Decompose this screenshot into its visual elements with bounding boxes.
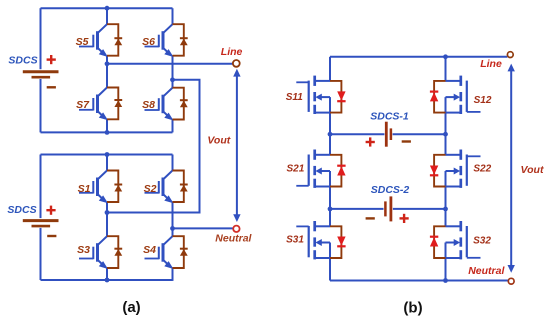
svg-text:S5: S5 [76,36,89,48]
svg-text:S4: S4 [143,244,156,256]
svg-text:S2: S2 [144,183,157,195]
svg-text:S3: S3 [77,244,90,256]
svg-text:(b): (b) [403,300,422,317]
svg-text:Line: Line [480,58,502,70]
svg-text:S11: S11 [286,92,303,103]
svg-text:S1: S1 [78,183,91,195]
svg-text:S22: S22 [473,164,491,175]
svg-text:Neutral: Neutral [468,265,505,277]
svg-text:SDCS-1: SDCS-1 [370,111,409,123]
svg-text:SDCS-2: SDCS-2 [371,184,410,196]
svg-text:(a): (a) [122,299,140,316]
svg-text:S8: S8 [142,99,155,111]
svg-text:S7: S7 [76,99,90,111]
svg-text:Line: Line [221,46,243,58]
svg-text:Neutral: Neutral [215,233,252,245]
svg-text:S6: S6 [142,36,155,48]
svg-text:S32: S32 [473,236,491,247]
svg-text:S31: S31 [286,235,304,246]
svg-text:Vout: Vout [521,164,544,176]
svg-text:Vout: Vout [207,135,230,147]
svg-text:S21: S21 [287,164,305,175]
svg-text:SDCS: SDCS [8,55,37,67]
svg-text:S12: S12 [474,95,492,106]
svg-text:SDCS: SDCS [7,204,36,216]
